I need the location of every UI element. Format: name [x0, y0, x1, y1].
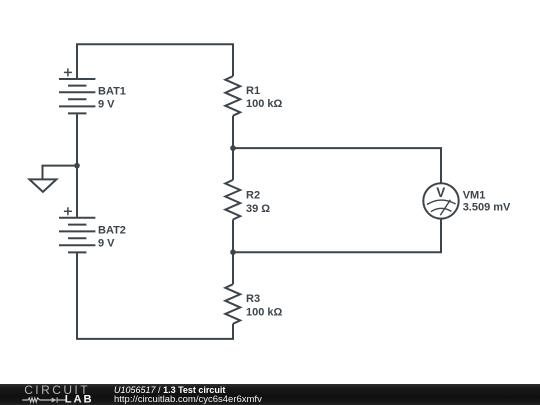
svg-text:VM1: VM1 [463, 190, 486, 202]
wire top net BAT1 to R1 [77, 44, 233, 79]
wire node B to voltmeter bottom [233, 218, 441, 252]
resistor R1 [225, 76, 240, 116]
voltmeter VM1 scale arc lower [431, 208, 452, 211]
plus sign BAT2 [64, 207, 72, 215]
ground node junction dot [74, 163, 80, 169]
resistor R3 [225, 284, 240, 324]
svg-text:R2: R2 [246, 189, 260, 201]
svg-text:39 Ω: 39 Ω [246, 203, 270, 215]
wire bottom net R3 to BAT2 [77, 252, 233, 339]
svg-text:3.509 mV: 3.509 mV [463, 202, 511, 214]
wire R2 bottom lead to node B [232, 220, 234, 253]
plus sign BAT1 [64, 68, 72, 76]
battery BAT1 plates [59, 79, 95, 113]
footer bar [0, 384, 540, 405]
svg-text:R3: R3 [246, 293, 260, 305]
node B junction dot [230, 249, 236, 255]
wire R1 bottom lead to node A [232, 116, 234, 148]
svg-text:BAT2: BAT2 [98, 224, 126, 236]
svg-text:R1: R1 [246, 85, 260, 97]
footer title line [114, 385, 225, 395]
battery BAT2 plates [59, 218, 95, 253]
ground symbol [29, 166, 77, 192]
CircuitLab logo resistor-diode-LAB row [22, 384, 97, 405]
node A junction dot [230, 145, 236, 151]
wire R3 top lead [232, 252, 234, 284]
voltmeter VM1 scale arc upper [427, 200, 456, 204]
svg-text:9 V: 9 V [98, 238, 115, 250]
svg-text:LAB: LAB [65, 394, 94, 405]
svg-text:9 V: 9 V [98, 99, 115, 111]
wire BAT1 bottom to BAT2 top rail [76, 113, 78, 217]
svg-text:V: V [436, 185, 445, 200]
svg-text:100 kΩ: 100 kΩ [246, 98, 283, 110]
voltmeter VM1 needle [440, 200, 450, 215]
resistor R2 [225, 180, 240, 220]
svg-text:BAT1: BAT1 [98, 85, 126, 97]
svg-text:100 kΩ: 100 kΩ [246, 307, 283, 319]
wire node A to voltmeter top [233, 148, 441, 183]
wire R2 top lead [232, 148, 234, 180]
CircuitLab logo wordmark CIRCUIT [24, 383, 90, 397]
footer url line [114, 394, 262, 405]
voltmeter VM1 circle [423, 183, 458, 218]
